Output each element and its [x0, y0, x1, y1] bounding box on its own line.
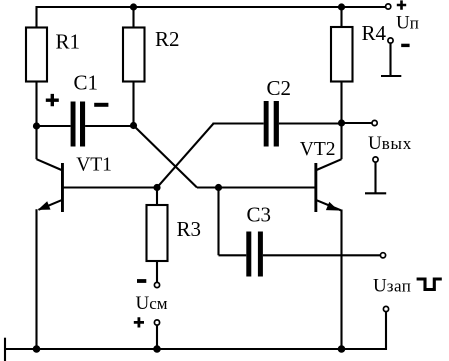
svg-text:Uзап: Uзап: [373, 276, 411, 297]
node D junction (VT1 base / R3): [153, 184, 160, 191]
wire output to Uvyh terminal: [342, 122, 372, 124]
terminal Uvyh: [372, 120, 377, 125]
wire C3 branch vertical: [217, 188, 219, 256]
polarity plus sign of Up: [397, 0, 406, 9]
junction Usm at rail: [153, 345, 161, 353]
svg-text:C2: C2: [267, 76, 292, 100]
svg-text:C3: C3: [247, 202, 272, 226]
rail left end tick: [4, 338, 6, 361]
node B junction (R2/C1/cross wire): [130, 122, 137, 129]
label Uvyh: [368, 133, 412, 154]
resistor R1: [26, 28, 47, 82]
resistor R2: [123, 28, 145, 82]
label R4: [362, 21, 387, 45]
terminal Up plus: [386, 4, 391, 9]
label Up: [396, 12, 419, 33]
ground stub of Up minus: [381, 43, 401, 76]
transistor VT2: [314, 123, 341, 349]
terminal Usm minus: [154, 282, 159, 287]
wire bottom common rail: [5, 348, 386, 350]
trigger pulse symbol: [417, 279, 442, 290]
capacitor C3: [246, 232, 263, 277]
terminal C3 trigger: [380, 253, 385, 258]
wire C3 right plate to trigger terminal: [263, 254, 380, 256]
label VT2: [300, 139, 336, 160]
wire R2 bottom lead: [132, 82, 134, 127]
wire diagonal node D to C2 line: [157, 124, 213, 188]
wire horizontal to VT2 base: [197, 186, 315, 188]
transistor VT1: [37, 127, 64, 349]
wire R2 top lead: [132, 7, 134, 28]
node C junction (R4/C2/VT2 collector/output): [338, 119, 345, 126]
svg-text:R2: R2: [155, 27, 180, 51]
label C1: [74, 71, 99, 95]
node A junction (R1/C1/VT1 collector): [33, 122, 40, 129]
wire R3 top lead: [156, 188, 158, 206]
node C3 branch junction: [215, 184, 222, 191]
junction VT1 emitter at rail: [33, 345, 41, 353]
wire Usm terminal to bottom rail: [156, 325, 158, 348]
svg-text:R3: R3: [177, 217, 202, 241]
wire top supply rail: [37, 6, 386, 8]
wire diagonal node B to VT2 base line: [134, 126, 197, 188]
svg-text:VT1: VT1: [76, 155, 112, 176]
terminal Up minus: [388, 38, 393, 43]
terminal Usm plus: [154, 320, 159, 325]
capacitor C2: [264, 101, 279, 147]
wire R1 top lead: [35, 6, 37, 28]
label Uzap: [373, 276, 411, 297]
svg-text:VT2: VT2: [300, 139, 336, 160]
wire C1 to node B: [85, 125, 133, 127]
polarity minus sign of Up: [401, 44, 409, 47]
junction on rail at R2: [130, 3, 137, 10]
wire to C2 left plate: [213, 122, 264, 124]
wire C2 right plate to node C: [279, 122, 342, 124]
wire node A to C1: [37, 125, 71, 127]
junction on rail at R4: [338, 3, 345, 10]
svg-text:Uвых: Uвых: [368, 133, 412, 154]
wire Uzap terminal to bottom rail: [343, 312, 386, 349]
wire R4 top lead: [340, 7, 342, 27]
svg-text:Uсм: Uсм: [136, 293, 168, 314]
wire R4 bottom lead: [340, 82, 342, 124]
polarity minus sign of Usm: [137, 279, 146, 283]
svg-text:C1: C1: [74, 71, 99, 95]
junction VT2 emitter at rail: [338, 345, 346, 353]
polarity plus sign of Usm: [134, 317, 144, 327]
svg-text:Uп: Uп: [396, 12, 419, 33]
label R1: [56, 30, 81, 54]
resistor R4: [331, 27, 353, 82]
terminal Uzap: [383, 306, 388, 311]
polarity minus sign of C1: [94, 103, 108, 107]
resistor R3: [147, 205, 168, 261]
wire R3 bottom lead: [156, 261, 158, 282]
label C3: [247, 202, 272, 226]
polarity plus sign of C1: [46, 94, 59, 106]
ground stub of Uvyh return: [365, 162, 386, 193]
svg-text:R1: R1: [56, 30, 81, 54]
terminal Uvyh return: [373, 157, 378, 162]
wire R1 bottom lead: [35, 82, 37, 128]
wire to C3 left plate: [219, 254, 247, 256]
label Usm: [136, 293, 168, 314]
label VT1: [76, 155, 112, 176]
label R3: [177, 217, 202, 241]
label R2: [155, 27, 180, 51]
label C2: [267, 76, 292, 100]
svg-text:R4: R4: [362, 21, 387, 45]
wire VT1 base line: [64, 186, 158, 188]
capacitor C1: [71, 102, 86, 147]
